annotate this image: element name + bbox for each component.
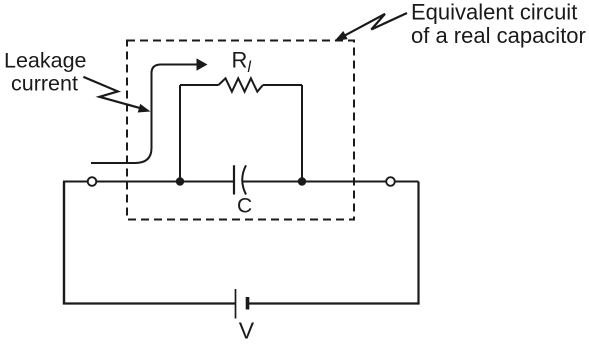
wire: right branch vertical	[301, 85, 303, 182]
capacitor C right plate (curved)	[242, 165, 246, 194]
wire: top horizontal left of resistor	[180, 84, 219, 86]
svg-text:Leakage: Leakage	[4, 49, 87, 73]
junction dot right node	[298, 177, 306, 185]
leakage current curved path with arrow	[91, 65, 198, 164]
terminal: left open circle	[88, 177, 97, 186]
svg-text:of a real capacitor: of a real capacitor	[411, 23, 586, 48]
capacitor C left plate	[233, 165, 235, 194]
wire: bottom left horizontal	[63, 302, 235, 304]
wire: main horizontal left section	[63, 181, 234, 183]
resistor Rl zigzag	[219, 78, 263, 91]
wire: left branch vertical	[179, 85, 181, 182]
equivalent-circuit annotation zigzag arrow	[344, 13, 408, 36]
svg-text:Rl: Rl	[232, 48, 252, 77]
svg-text:C: C	[237, 195, 252, 218]
wire: main horizontal right section	[243, 181, 419, 183]
leakage-current annotation zigzag arrow	[83, 77, 140, 108]
wire: bottom right horizontal	[248, 302, 420, 304]
battery V short thick plate	[246, 297, 250, 310]
svg-text:Equivalent circuit: Equivalent circuit	[411, 0, 577, 25]
svg-text:current: current	[11, 72, 78, 96]
wire: right outer vertical	[417, 182, 419, 304]
terminal: right open circle	[386, 177, 395, 186]
dashed box: equivalent circuit boundary	[127, 41, 354, 220]
wire: top horizontal right of resistor	[263, 84, 302, 86]
battery V long plate	[235, 289, 237, 319]
svg-text:V: V	[239, 318, 255, 344]
arrowhead of leakage current path	[197, 58, 208, 70]
junction dot left node	[176, 177, 184, 185]
wire: left outer vertical	[63, 182, 65, 304]
